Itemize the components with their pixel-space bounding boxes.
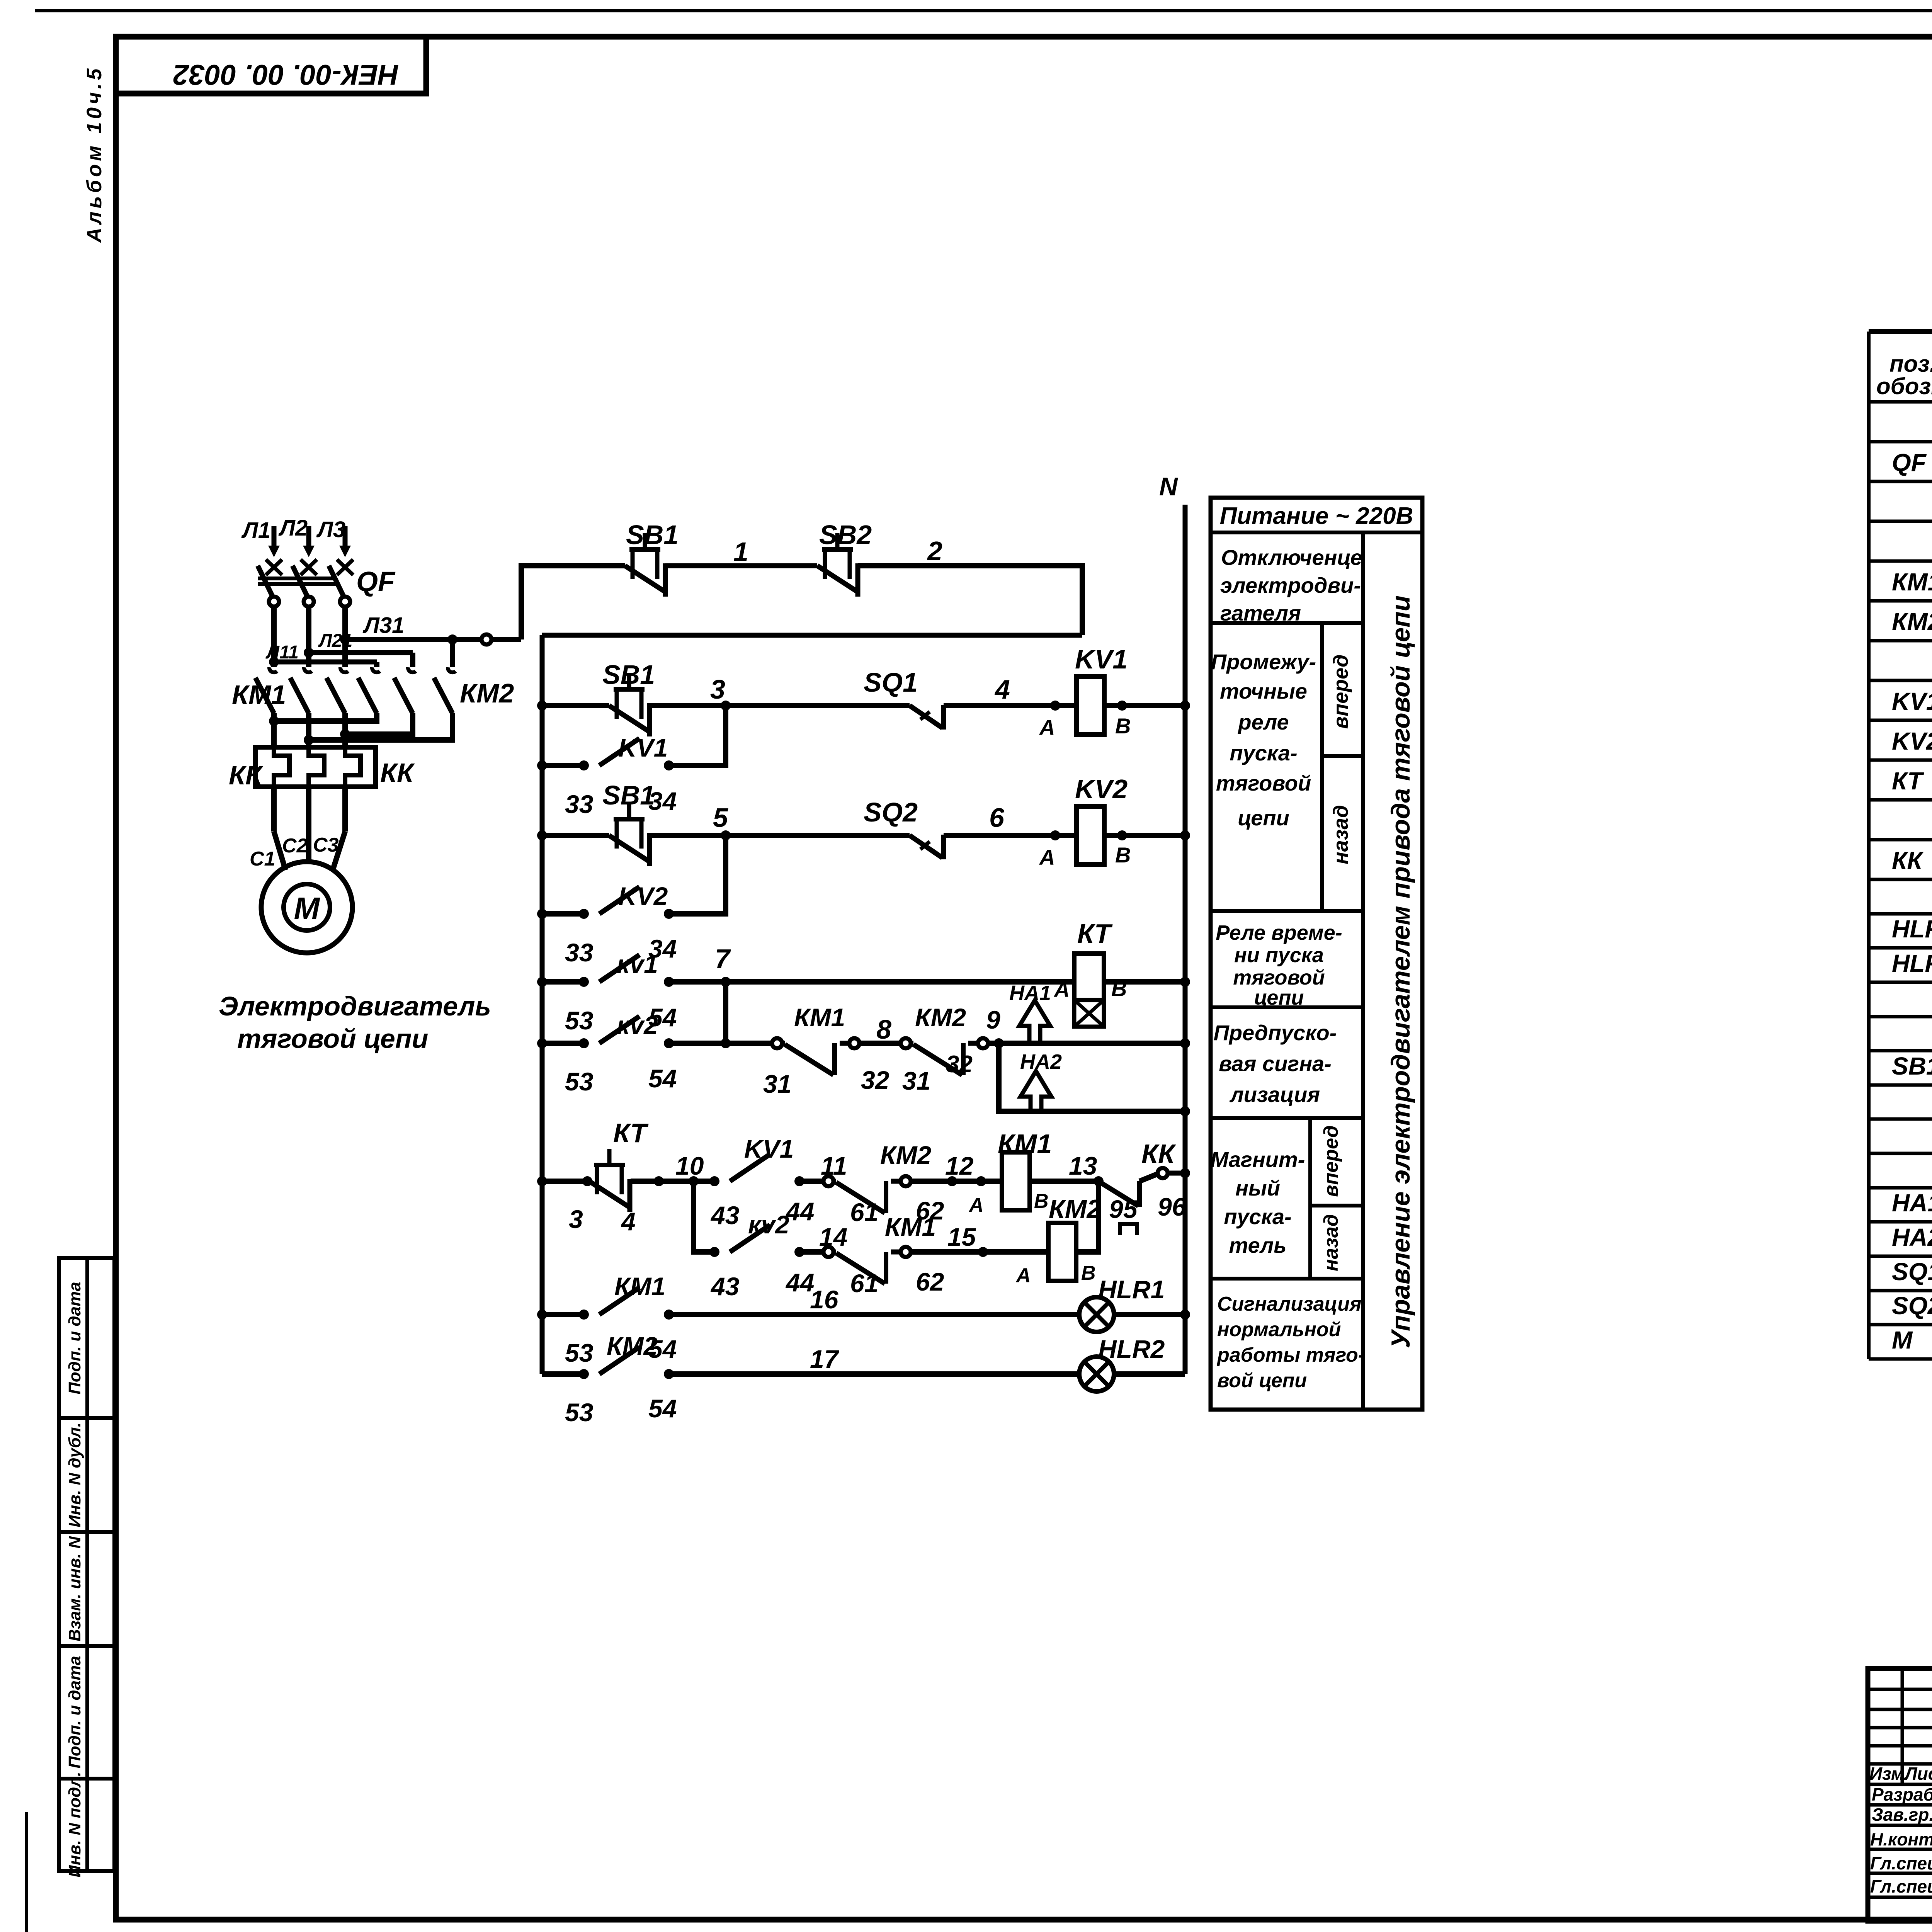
QF pole 2 terminal circle <box>304 597 314 607</box>
svg-text:кv1: кv1 <box>617 950 658 978</box>
svg-text:53: 53 <box>565 1067 593 1096</box>
svg-text:назад: назад <box>1329 805 1352 864</box>
sub divider row B <box>1320 623 1324 911</box>
row9 wire from rail <box>542 1371 584 1377</box>
contactor KM2 main contact pole 1 <box>372 667 380 672</box>
time relay contact KT (delayed) <box>589 1181 629 1207</box>
wire Л11 vertical <box>271 607 277 667</box>
svg-text:15: 15 <box>947 1223 976 1251</box>
svg-text:Л11: Л11 <box>265 642 299 663</box>
svg-text:обозн.: обозн. <box>1876 373 1932 399</box>
svg-text:электродви-: электродви- <box>1220 573 1361 597</box>
relay contact KV2 53-54 <box>579 1038 589 1048</box>
svg-text:М: М <box>294 891 321 925</box>
row5 wire 7 <box>669 979 1074 985</box>
row3 wire to right rail <box>1104 833 1185 838</box>
siren HA2 <box>1020 1071 1051 1111</box>
svg-text:назад: назад <box>1320 1214 1342 1271</box>
wire HA2 row <box>1024 1109 1185 1114</box>
QF pole 3 blade <box>329 566 344 597</box>
svg-text:7: 7 <box>715 944 731 974</box>
wire C1 slant to motor <box>274 832 286 870</box>
row3 wire 5 <box>650 833 910 838</box>
svg-text:N: N <box>1159 472 1178 501</box>
svg-text:Разраб.: Разраб. <box>1872 1784 1932 1804</box>
pushbutton SB1 (stop, top rung) <box>625 566 664 591</box>
arrowhead Л3 <box>339 546 351 557</box>
svg-text:HLR2: HLR2 <box>1892 949 1932 977</box>
svg-text:КМ2: КМ2 <box>460 678 514 708</box>
svg-text:Н.контр.: Н.контр. <box>1870 1829 1932 1849</box>
svg-text:КМ1: КМ1 <box>614 1272 665 1301</box>
wire C1 vertical <box>271 787 277 832</box>
svg-text:тяговой цепи: тяговой цепи <box>237 1024 428 1054</box>
svg-text:КК: КК <box>1141 1139 1177 1169</box>
svg-text:Л21: Л21 <box>318 631 352 651</box>
wire KM2 coil to node 13 <box>1076 1181 1099 1252</box>
phase wire Л1 incoming <box>272 526 277 548</box>
svg-text:43: 43 <box>710 1272 739 1301</box>
svg-text:53: 53 <box>565 1398 593 1427</box>
row9 wire to rail <box>1114 1371 1185 1377</box>
svg-text:Электродвигатель: Электродвигатель <box>219 991 491 1021</box>
phase3 wire below KM1 <box>342 713 348 747</box>
svg-text:вперед: вперед <box>1329 655 1352 729</box>
svg-text:Промежу-: Промежу- <box>1211 650 1316 674</box>
row1 wire 3 <box>650 703 910 708</box>
row1 wire 4 <box>944 703 1077 708</box>
svg-text:QF: QF <box>1892 449 1927 476</box>
svg-text:КМ2: КМ2 <box>1892 608 1932 636</box>
svg-text:В: В <box>1115 843 1131 867</box>
svg-text:Л31: Л31 <box>362 613 404 638</box>
terminal X mark Л1 <box>266 560 282 575</box>
wire Л31 vertical <box>342 607 348 667</box>
svg-text:С2: С2 <box>282 835 308 857</box>
svg-text:Изм.: Изм. <box>1869 1764 1909 1784</box>
svg-text:КМ2: КМ2 <box>1049 1194 1101 1224</box>
function annotation column <box>1211 498 1422 1410</box>
relay contact KV1 43-44 <box>709 1176 719 1186</box>
wire: feed riser to stop-buttons rung <box>521 566 625 639</box>
svg-text:54: 54 <box>648 1064 677 1093</box>
svg-text:95: 95 <box>1109 1195 1138 1223</box>
ladder right rail N <box>1183 505 1188 1374</box>
wire C2 vertical <box>306 787 311 863</box>
svg-text:Отключенце: Отключенце <box>1221 545 1362 570</box>
contactor aux contact KM1 31-32 (NC) <box>772 1038 782 1048</box>
svg-text:ный: ный <box>1235 1176 1280 1200</box>
limit switch SQ2 contact <box>910 835 942 858</box>
title block <box>1868 1668 1932 1921</box>
row5 wire from rail <box>542 979 584 985</box>
svg-text:тяговой: тяговой <box>1216 771 1311 795</box>
dropper node 7 to row6 <box>723 982 728 1043</box>
row7 wire 13 <box>1030 1179 1099 1184</box>
svg-text:KV1: KV1 <box>744 1134 794 1163</box>
row7b wire 15 <box>911 1249 1048 1255</box>
row8 wire 16 <box>669 1312 1079 1317</box>
svg-text:Взам. инв. N: Взам. инв. N <box>65 1536 84 1641</box>
paper edge top <box>35 9 1932 12</box>
svg-text:КМ1: КМ1 <box>232 680 286 710</box>
time relay coil KT <box>1074 954 1104 1000</box>
QF pole 1 blade <box>258 566 273 597</box>
svg-text:Подп. и дата: Подп. и дата <box>65 1282 84 1394</box>
row2 riser to node 3 <box>669 706 726 765</box>
svg-text:Л2: Л2 <box>278 515 308 541</box>
row8 wire from rail <box>542 1312 584 1317</box>
svg-text:8: 8 <box>876 1014 891 1044</box>
terminal circle on Л31 feed <box>481 634 492 645</box>
contactor KM2 main contact pole 3 <box>448 667 456 672</box>
parts list table <box>1867 332 1871 1359</box>
row4 wire from rail <box>542 911 584 917</box>
svg-text:тель: тель <box>1229 1233 1287 1257</box>
svg-text:Альбом 10ч.5: Альбом 10ч.5 <box>83 65 106 243</box>
svg-text:SB1: SB1 <box>626 520 679 550</box>
wire Л11 horizontal to KM2 pole1 <box>274 660 377 665</box>
svg-text:точные: точные <box>1220 679 1307 703</box>
svg-text:Реле време-: Реле време- <box>1216 921 1342 944</box>
svg-text:С1: С1 <box>250 848 275 870</box>
row7 wire 11 <box>799 1179 823 1184</box>
svg-text:53: 53 <box>565 1006 593 1035</box>
row4 riser to node 5 <box>669 835 726 914</box>
svg-text:тяговой: тяговой <box>1233 966 1325 989</box>
row7 wire 12 <box>911 1179 1002 1184</box>
contactor aux contact KM1 61-62 (NC) <box>823 1247 833 1257</box>
svg-text:QF: QF <box>356 566 396 597</box>
svg-text:SB1: SB1 <box>1892 1052 1932 1080</box>
svg-text:В: В <box>1081 1262 1096 1284</box>
phase2 wire below KM1 <box>306 713 311 747</box>
wire 1 <box>665 563 817 568</box>
svg-text:НА1: НА1 <box>1009 981 1051 1005</box>
row8 wire to rail <box>1114 1312 1185 1317</box>
svg-text:вой цепи: вой цепи <box>1217 1369 1307 1392</box>
contactor aux contact KM2 61-62 (NC) <box>823 1176 833 1186</box>
thermal relay contact KK 95-96 <box>1101 1183 1138 1206</box>
wire C3 vertical <box>342 787 348 832</box>
svg-text:реле: реле <box>1237 710 1289 734</box>
row2 wire from rail <box>542 763 584 768</box>
relay contact KV2 33-34 (hold) <box>579 909 589 919</box>
svg-text:НА1: НА1 <box>1892 1189 1932 1217</box>
row6 wire 8 <box>859 1041 901 1046</box>
KM2 pole1 bottom wire to phase1 <box>274 713 377 721</box>
contactor KM1 main contact pole 2 <box>304 667 312 672</box>
terminal X mark Л2 <box>301 560 317 575</box>
svg-text:44: 44 <box>785 1197 814 1226</box>
svg-text:SQ2: SQ2 <box>1892 1292 1932 1320</box>
arrowhead Л1 <box>268 546 280 557</box>
wire Л31 horizontal feed to ladder <box>345 637 481 642</box>
row3 wire 6 <box>944 833 1077 838</box>
row1 wire to right rail <box>1104 703 1185 708</box>
svg-text:цепи: цепи <box>1254 986 1304 1009</box>
svg-text:М: М <box>1892 1326 1913 1354</box>
svg-text:32: 32 <box>946 1051 973 1078</box>
svg-text:4: 4 <box>994 674 1010 704</box>
svg-text:4: 4 <box>621 1207 636 1236</box>
KK heater element phase 1 <box>274 747 289 787</box>
svg-text:КМ1,: КМ1, <box>1892 568 1932 596</box>
svg-text:2: 2 <box>927 536 942 566</box>
svg-text:6: 6 <box>989 803 1005 833</box>
svg-text:кv2: кv2 <box>748 1210 789 1239</box>
svg-text:Управление электродвигателем: Управление электродвигателем привода тяг… <box>1386 595 1415 1349</box>
svg-text:16: 16 <box>810 1285 839 1314</box>
svg-text:HLR1: HLR1 <box>1098 1275 1165 1304</box>
svg-text:HLR1,: HLR1, <box>1892 915 1932 943</box>
svg-text:9: 9 <box>986 1005 1000 1034</box>
ladder left rail <box>540 635 545 1374</box>
row9 wire 17 <box>669 1371 1079 1377</box>
KM2 pole3 bottom wire to phase2 <box>309 713 452 740</box>
svg-text:Предпуско-: Предпуско- <box>1214 1020 1337 1045</box>
pushbutton SB1 (start forward) <box>609 706 648 731</box>
svg-text:Зав.гр.: Зав.гр. <box>1872 1804 1932 1825</box>
svg-text:KV2: KV2 <box>618 882 668 910</box>
svg-text:А: А <box>968 1194 984 1216</box>
row7 wire <box>631 1179 714 1184</box>
svg-text:А: А <box>1039 715 1055 740</box>
svg-text:SQ1: SQ1 <box>864 667 918 697</box>
svg-text:5: 5 <box>713 803 728 833</box>
QF pole 2 blade <box>293 566 308 597</box>
relay contact KV1 53-54 <box>579 977 589 987</box>
svg-text:Инв. N дубл.: Инв. N дубл. <box>65 1422 84 1527</box>
row6 wire from rail <box>542 1041 584 1046</box>
svg-text:12: 12 <box>945 1151 974 1180</box>
svg-text:ни пуска: ни пуска <box>1234 944 1324 967</box>
KT time-delay flag <box>1074 1000 1104 1027</box>
svg-text:работы тяго-: работы тяго- <box>1216 1344 1365 1366</box>
svg-text:31: 31 <box>763 1070 791 1098</box>
svg-text:Магнит-: Магнит- <box>1211 1147 1305 1172</box>
svg-text:Подп. и дата: Подп. и дата <box>65 1656 84 1768</box>
svg-text:KV2: KV2 <box>1892 727 1932 755</box>
contactor KM1 main contact pole 3 <box>340 667 348 672</box>
relay coil KV1 <box>1077 677 1104 735</box>
signal lamp HLR1 <box>1079 1297 1114 1332</box>
thermal relay KK box <box>255 747 376 787</box>
svg-text:SB1: SB1 <box>602 780 655 810</box>
svg-text:А: А <box>1015 1264 1031 1287</box>
svg-text:61: 61 <box>850 1269 878 1298</box>
svg-text:КК: КК <box>380 758 415 788</box>
svg-text:17: 17 <box>810 1345 840 1373</box>
wire to KM2 pole2 <box>410 653 415 667</box>
svg-text:лизация: лизация <box>1229 1082 1320 1107</box>
svg-text:КМ2: КМ2 <box>880 1141 932 1169</box>
KM2 pole2 bottom wire to phase3 <box>345 713 413 734</box>
contactor KM2 main contact pole 2 <box>408 667 416 672</box>
branch wire to siren HA2 <box>999 1043 1024 1111</box>
phase wire Л2 incoming <box>306 526 311 548</box>
circuit breaker QF mechanical linkage <box>258 577 337 580</box>
svg-text:КМ2: КМ2 <box>915 1003 966 1032</box>
svg-text:54: 54 <box>648 1394 677 1423</box>
svg-text:43: 43 <box>710 1201 739 1230</box>
svg-text:вая сигна-: вая сигна- <box>1219 1051 1332 1076</box>
svg-text:Питание ~ 220В: Питание ~ 220В <box>1220 503 1413 529</box>
svg-text:Л3: Л3 <box>316 517 345 542</box>
svg-text:1: 1 <box>733 537 748 567</box>
svg-text:НЕК-00. 00. 0032: НЕК-00. 00. 0032 <box>173 59 399 91</box>
contactor coil KM1 <box>1002 1152 1030 1210</box>
svg-text:С3: С3 <box>313 834 339 856</box>
svg-text:цепи: цепи <box>1238 806 1289 830</box>
top bus wire <box>542 633 1082 638</box>
contactor KM1 main contact pole 1 <box>269 667 277 672</box>
KK heater element phase 3 <box>345 747 361 787</box>
relay contact KV2 43-44 <box>709 1247 719 1257</box>
relay contact KV1 33-34 (hold) <box>579 760 589 770</box>
svg-text:КТ: КТ <box>1077 918 1113 949</box>
svg-text:3: 3 <box>569 1205 583 1233</box>
contactor coil KM2 <box>1048 1223 1076 1281</box>
paper edge left (bottom corner) <box>25 1812 28 1932</box>
svg-text:Инв. N подл.: Инв. N подл. <box>65 1772 84 1878</box>
svg-text:пуска-: пуска- <box>1230 741 1297 765</box>
row7b wire 14 <box>799 1249 823 1255</box>
svg-text:КК: КК <box>229 760 264 790</box>
row7 wire from rail <box>542 1179 589 1184</box>
svg-text:KV1...: KV1... <box>1892 687 1932 715</box>
wire Л21 vertical <box>306 607 311 667</box>
QF pole 1 terminal circle <box>269 597 279 607</box>
svg-text:В: В <box>1034 1190 1049 1213</box>
svg-text:HLR2: HLR2 <box>1098 1335 1165 1363</box>
svg-text:10: 10 <box>675 1151 704 1180</box>
svg-text:А: А <box>1039 845 1055 869</box>
KK manual return symbol <box>1120 1224 1137 1235</box>
svg-text:61: 61 <box>850 1198 878 1226</box>
KK heater element phase 2 <box>309 747 324 787</box>
svg-text:KV1: KV1 <box>1075 644 1128 674</box>
phase wire Л3 incoming <box>343 526 348 548</box>
wire C3 slant to motor <box>333 832 345 870</box>
svg-text:гателя: гателя <box>1220 601 1301 625</box>
svg-text:Сигнализация: Сигнализация <box>1217 1293 1362 1315</box>
QF pole 3 terminal circle <box>340 597 350 607</box>
svg-text:Гл.спец.: Гл.спец. <box>1870 1853 1932 1873</box>
row6 wire <box>669 1041 772 1046</box>
contactor aux contact KM2 53-54 <box>579 1369 589 1379</box>
svg-text:KV2: KV2 <box>1075 774 1128 804</box>
svg-text:Л1: Л1 <box>241 518 270 543</box>
svg-text:вперед: вперед <box>1320 1125 1342 1197</box>
svg-text:кv2: кv2 <box>617 1011 658 1039</box>
svg-text:поз.: поз. <box>1889 351 1932 377</box>
wire Л21 horizontal to KM2 pole2 <box>309 650 413 655</box>
svg-text:нормальной: нормальной <box>1217 1318 1341 1341</box>
signal lamp HLR2 <box>1079 1357 1114 1391</box>
svg-text:96: 96 <box>1158 1192 1187 1221</box>
riser node 10 to row7b <box>694 1181 714 1252</box>
row1 wire from left rail <box>542 703 609 708</box>
pushbutton SB1 (start reverse) <box>609 835 648 861</box>
svg-text:КМ2: КМ2 <box>607 1332 658 1360</box>
row6 wire 9 to rail <box>988 1041 1185 1046</box>
limit switch SQ1 contact <box>910 706 942 728</box>
svg-text:SB2: SB2 <box>819 520 872 550</box>
svg-text:KV1: KV1 <box>618 733 668 762</box>
svg-text:53: 53 <box>565 1338 593 1367</box>
svg-text:3: 3 <box>710 674 725 704</box>
phase1 wire below KM1 <box>271 713 277 747</box>
svg-text:Лист: Лист <box>1904 1764 1932 1784</box>
wire to KM2 pole1 <box>374 662 379 667</box>
svg-text:33: 33 <box>565 938 593 967</box>
pushbutton SB2 (stop, top rung) <box>817 566 857 591</box>
svg-text:КМ1: КМ1 <box>794 1003 845 1032</box>
svg-text:КМ1: КМ1 <box>998 1129 1052 1159</box>
svg-text:SQ2: SQ2 <box>864 797 918 827</box>
arrowhead Л2 <box>303 546 315 557</box>
svg-text:32: 32 <box>861 1066 889 1094</box>
terminal X mark Л3 <box>337 560 353 575</box>
svg-text:КТ: КТ <box>1892 767 1924 795</box>
row3 wire from rail <box>542 833 609 838</box>
svg-text:33: 33 <box>565 790 593 818</box>
svg-text:В: В <box>1115 714 1131 738</box>
svg-text:Гл.спец.: Гл.спец. <box>1870 1876 1932 1896</box>
wire Л31 feed after terminal <box>492 637 521 642</box>
siren HA1 <box>1019 1000 1050 1043</box>
left margin stamp boxes <box>59 1258 114 1871</box>
svg-text:62: 62 <box>916 1267 944 1296</box>
row5 wire to right rail <box>1104 979 1185 985</box>
wire 2 and drop to bus <box>858 566 1082 635</box>
doc number box (inverted) <box>116 37 426 94</box>
svg-text:КК: КК <box>1892 847 1923 874</box>
motor M electric machine <box>261 862 352 953</box>
svg-text:SQ1,: SQ1, <box>1892 1258 1932 1286</box>
svg-text:SB1: SB1 <box>602 660 655 690</box>
svg-text:НА2: НА2 <box>1892 1223 1932 1251</box>
svg-text:13: 13 <box>1069 1151 1097 1180</box>
svg-text:пуска-: пуска- <box>1224 1204 1291 1229</box>
svg-text:А: А <box>1053 977 1070 1002</box>
contactor aux contact KM2 31-32 (NC) <box>901 1038 911 1048</box>
relay coil KV2 <box>1077 806 1104 864</box>
svg-text:КТ: КТ <box>613 1118 649 1148</box>
sub divider row E <box>1308 1118 1312 1279</box>
wire to KM2 pole3 <box>450 639 455 667</box>
svg-text:НА2: НА2 <box>1020 1050 1062 1073</box>
svg-text:КМ1: КМ1 <box>885 1213 936 1241</box>
contactor aux contact KM1 53-54 <box>579 1310 589 1320</box>
svg-text:31: 31 <box>902 1066 930 1095</box>
